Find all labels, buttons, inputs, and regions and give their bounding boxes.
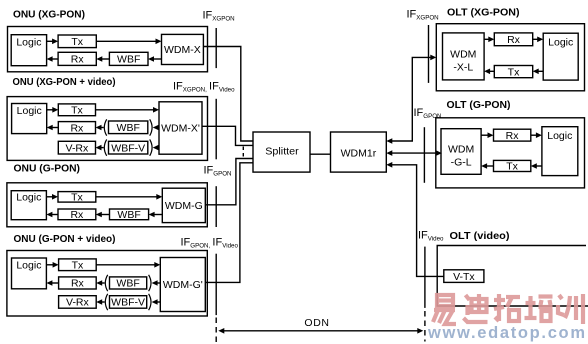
wire ONU1 Logic to Tx	[47, 39, 59, 45]
wire ONU3 Logic to Tx	[46, 194, 58, 200]
svg-text:WDM-G': WDM-G'	[163, 279, 203, 291]
ONU4 WDM-G' box	[160, 258, 205, 312]
svg-text:Rx: Rx	[507, 34, 521, 46]
wire ONU3 WDM-G to Splitter	[205, 159, 253, 205]
wire OLT1 WDM to Rx	[484, 37, 494, 43]
svg-text:WDM-X': WDM-X'	[161, 123, 200, 135]
WDM1r box	[331, 132, 387, 172]
ONU4 Tx box	[59, 259, 97, 271]
svg-text:V-Rx: V-Rx	[66, 297, 90, 309]
svg-text:V-Rx: V-Rx	[66, 142, 90, 154]
svg-text:Logic: Logic	[548, 37, 573, 49]
splitter ports ellipsis dashed	[242, 147, 244, 160]
ONU1 outer box	[8, 27, 208, 72]
svg-text:Tx: Tx	[72, 259, 84, 271]
svg-text:OLT (XG-PON): OLT (XG-PON)	[447, 7, 520, 19]
ONU3 Rx box	[58, 209, 96, 220]
svg-text:OLT (video): OLT (video)	[450, 230, 510, 242]
svg-text:Rx: Rx	[70, 209, 84, 221]
svg-text:Logic: Logic	[16, 191, 41, 203]
ONU4 V-Rx box	[59, 296, 97, 309]
wire ONU4 WDM-G' to WBF	[152, 280, 161, 286]
wire ONU1 WBF to Rx	[96, 56, 109, 62]
svg-text:OLT (G-PON): OLT (G-PON)	[447, 99, 511, 111]
wire ONU1 WDM-X to Splitter	[203, 47, 253, 142]
wire ONU3 WBF to Rx	[96, 212, 110, 218]
svg-text:Rx: Rx	[71, 54, 85, 66]
IF_GPON reference line right	[423, 127, 425, 183]
ONU2 WBF-V right paren	[150, 139, 152, 155]
svg-text:Rx: Rx	[70, 122, 84, 134]
wire ONU2 Logic to Tx	[47, 107, 59, 113]
ONU1 WDM-X box	[162, 34, 204, 64]
ONU2 Logic box	[12, 104, 47, 134]
wire Splitter to WDM1r	[310, 153, 331, 155]
wire ONU1 WDM-X to WBF	[148, 56, 162, 62]
IF_GPON+Video reference line left	[215, 254, 217, 315]
ONU2 WDM-X' box	[159, 102, 202, 154]
wire ONU2 WDM-X-prime to Splitter	[202, 126, 253, 145]
OLT2 Logic box	[542, 127, 578, 176]
svg-text:WDM: WDM	[450, 49, 476, 61]
wire OLT2 Logic to Tx	[531, 163, 542, 169]
ODN boundary dashed left	[215, 318, 217, 344]
svg-text:www.edatop.com: www.edatop.com	[427, 324, 585, 342]
wire ONU4 Tx to WDM-G'	[96, 262, 160, 268]
wire OLT2 Tx to WDM	[481, 163, 493, 169]
wire ONU4 WBF to Rx	[96, 280, 105, 286]
wire ONU2 WBF-V to V-Rx	[96, 145, 104, 151]
wire ONU4 WBF-V to V-Rx	[96, 299, 105, 305]
svg-text:WDM: WDM	[448, 144, 474, 156]
OLT3 outer box	[437, 246, 588, 307]
svg-text:Splitter: Splitter	[265, 146, 299, 158]
wire ONU4 WDM-G' to WBF-V	[152, 299, 161, 305]
wire ONU3 Rx to Logic	[46, 212, 58, 218]
OLT2 WDM-G-L box	[441, 129, 481, 175]
OLT2 outer box	[436, 118, 585, 188]
svg-text:Rx: Rx	[506, 130, 520, 142]
wire ONU2 WDM-X' to WBF	[153, 125, 159, 131]
ONU4 WBF-V box	[110, 296, 147, 309]
svg-text:-G-L: -G-L	[451, 157, 472, 169]
svg-text:Tx: Tx	[71, 36, 83, 48]
ONU3 outer box	[7, 183, 207, 227]
watermark chinese characters yi di tuo pei xun	[433, 294, 583, 324]
wire ONU1 Tx to WDM-X	[96, 39, 161, 45]
ONU2 outer box	[7, 97, 207, 161]
ONU2 WBF box	[109, 121, 148, 134]
ONU2 WBF-V box	[109, 141, 148, 154]
svg-text:Tx: Tx	[506, 161, 518, 173]
OLT1 WDM-X-L box	[443, 33, 485, 80]
ONU4 WBF-V right paren	[149, 294, 151, 310]
ONU4 WBF left paren	[105, 275, 107, 291]
ONU2 WBF right paren	[150, 119, 152, 135]
ONU1 Tx box	[58, 35, 96, 48]
svg-text:WBF: WBF	[116, 278, 139, 290]
svg-text:Logic: Logic	[547, 130, 572, 142]
ONU4 WBF right paren	[149, 275, 151, 291]
svg-text:WDM-G: WDM-G	[165, 200, 203, 212]
wire ONU2 Tx to WDM-X'	[96, 107, 160, 113]
wire OLT2 Rx to Logic	[531, 132, 542, 138]
splitter box	[253, 132, 310, 172]
ODN boundary dashed right	[424, 311, 426, 342]
wire ONU1 Rx to Logic	[47, 56, 59, 62]
svg-text:ONU (XG-PON): ONU (XG-PON)	[13, 9, 85, 21]
wire ONU4 WDM-G-prime to Splitter	[205, 163, 253, 283]
ONU4 outer box	[7, 251, 207, 317]
svg-text:WBF: WBF	[117, 209, 140, 221]
OLT2 Rx box	[494, 129, 531, 141]
OLT1 Tx box	[494, 66, 532, 78]
ONU4 WBF-V left paren	[105, 294, 107, 310]
wire WDM1r to OLT G-PON WDM-G-L	[386, 150, 442, 156]
wire V-Tx to WDM1r	[386, 162, 444, 276]
ONU4 Logic box	[12, 258, 47, 289]
ONU3 Tx box	[58, 192, 96, 203]
IF_XGPON+Video reference line left	[215, 99, 217, 160]
wire ONU3 WDM-G to WBF	[149, 212, 163, 218]
svg-text:ONU (XG-PON + video): ONU (XG-PON + video)	[13, 76, 116, 88]
OLT2 Tx box	[494, 160, 531, 171]
ONU1 Rx box	[58, 52, 96, 65]
svg-text:WBF-V: WBF-V	[111, 297, 145, 309]
ONU2 V-Rx box	[58, 141, 95, 154]
wire ONU2 WBF to Rx	[96, 125, 104, 131]
svg-text:WDM-X: WDM-X	[164, 44, 201, 56]
svg-text:ONU (G-PON): ONU (G-PON)	[14, 163, 81, 175]
wire OLT1 Logic to Tx	[533, 69, 544, 75]
wire OLT1 Rx to Logic	[533, 37, 544, 43]
IF_Video reference line right	[424, 247, 426, 308]
svg-text:ODN: ODN	[304, 317, 329, 329]
wire ONU3 Tx to WDM-G	[96, 194, 163, 200]
svg-text:Logic: Logic	[16, 36, 41, 48]
ONU2 Rx box	[58, 122, 95, 134]
ODN span arrow	[218, 328, 423, 334]
wire ONU4 Logic to Tx	[46, 262, 58, 268]
svg-text:-X-L: -X-L	[453, 61, 473, 73]
svg-text:WBF: WBF	[117, 54, 140, 66]
wire ONU4 Rx to Logic	[46, 280, 58, 286]
OLT1 outer box	[436, 24, 584, 91]
OLT1 Logic box	[543, 33, 578, 80]
svg-text:Tx: Tx	[71, 192, 83, 204]
svg-text:WBF-V: WBF-V	[111, 142, 145, 154]
IF_XGPON reference line right	[428, 25, 430, 83]
svg-text:WDM1r: WDM1r	[341, 147, 377, 159]
ONU3 WDM-G box	[162, 188, 205, 222]
svg-text:Tx: Tx	[508, 66, 520, 78]
wire OLT1 Tx to WDM	[484, 69, 494, 75]
ONU2 Tx box	[58, 104, 95, 116]
ONU1 WBF box	[109, 52, 148, 65]
svg-text:Rx: Rx	[71, 278, 85, 290]
ONU4 WBF box	[110, 277, 147, 289]
ONU2 WBF left paren	[104, 119, 106, 135]
ONU3 Logic box	[11, 191, 46, 220]
wire ONU2 WDM-X' to WBF-V	[153, 145, 159, 151]
svg-text:Tx: Tx	[71, 105, 83, 117]
wire ONU2 Rx to Logic	[47, 125, 59, 131]
wire WDM1r to OLT XG-PON	[386, 55, 436, 144]
svg-text:ONU (G-PON + video): ONU (G-PON + video)	[14, 233, 116, 245]
svg-text:Logic: Logic	[16, 260, 41, 272]
wire OLT2 WDM to Rx	[481, 132, 493, 138]
IF_GPON reference line left	[215, 186, 217, 227]
svg-text:WBF: WBF	[117, 122, 140, 134]
ONU2 WBF-V left paren	[104, 139, 106, 155]
svg-text:Logic: Logic	[17, 105, 42, 117]
ONU1 Logic box	[11, 35, 46, 66]
ONU3 WBF box	[110, 209, 149, 220]
IF_XGPON reference line left	[215, 28, 217, 68]
ONU4 Rx box	[59, 277, 97, 289]
svg-text:V-Tx: V-Tx	[453, 271, 475, 283]
OLT1 Rx box	[494, 33, 532, 46]
OLT3 V-Tx box	[444, 270, 484, 283]
